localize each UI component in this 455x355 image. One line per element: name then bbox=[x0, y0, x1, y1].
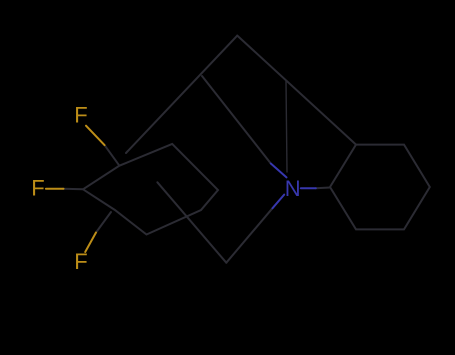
svg-text:F: F bbox=[31, 176, 44, 201]
bond C-F1 fluorine half bbox=[86, 126, 105, 145]
wire N lower-left (carbon half) bbox=[226, 208, 272, 263]
svg-text:F: F bbox=[74, 103, 87, 128]
svg-text:F: F bbox=[74, 249, 87, 274]
bond C-F1 carbon half bbox=[105, 145, 120, 166]
bond N lower-left nitrogen half bbox=[273, 195, 285, 209]
wire N to right ring (carbon half) bbox=[316, 187, 330, 190]
bond N upper-left nitrogen half bbox=[271, 164, 287, 178]
wire upper bridge left segment bbox=[126, 36, 237, 153]
bond N to right ring nitrogen half bbox=[301, 187, 316, 189]
wire N to upper bridge (carbon half) bbox=[202, 76, 271, 164]
bond C-F2 carbon half bbox=[63, 188, 83, 191]
bond C-F3 carbon half bbox=[96, 212, 111, 233]
bond C-F2 fluorine half bbox=[46, 188, 64, 190]
wire lower valley to left ring bbox=[157, 182, 226, 262]
wire vertical from N region to upper bridge bbox=[286, 81, 287, 172]
right carbon ring (N-phenyl hexagon) bbox=[330, 145, 430, 230]
bond C-F3 fluorine half bbox=[85, 233, 96, 253]
svg-text:N: N bbox=[285, 176, 301, 201]
wire upper bridge right segment bbox=[237, 36, 356, 145]
trifluorobenzene ring (left carbon ring) bbox=[83, 144, 218, 235]
